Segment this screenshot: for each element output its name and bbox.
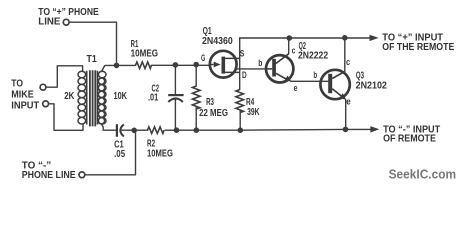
wire: Q3 collector from top rail	[344, 38, 346, 72]
junction node: Q3 collector at top rail	[342, 35, 348, 41]
junction node: R4 bottom	[238, 127, 244, 133]
svg-text:.05: .05	[114, 149, 125, 160]
svg-text:SeekIC.com: SeekIC.com	[389, 167, 457, 182]
wire: transformer secondary top stub	[102, 66, 105, 72]
svg-text:b: b	[258, 58, 262, 69]
svg-text:b: b	[313, 70, 317, 81]
wire: transformer secondary bottom stub to C1	[102, 124, 116, 130]
wire: mike input top lead to transformer primary top	[46, 66, 83, 87]
wire: Q3 emitter down to bottom rail	[345, 100, 347, 130]
terminal: phone + line	[63, 19, 69, 25]
junction node: R3 top	[193, 62, 199, 68]
junction node: C2 top	[173, 62, 179, 68]
transistor Q3 2N2102	[320, 70, 349, 100]
svg-text:R3: R3	[206, 97, 214, 108]
junction node: C1 / phone minus	[131, 128, 137, 134]
svg-text:22 MEG: 22 MEG	[199, 108, 228, 119]
wire: Q2 collector to top rail	[288, 38, 290, 54]
svg-text:G: G	[201, 53, 205, 64]
svg-text:10MEG: 10MEG	[147, 148, 173, 159]
transistor Q1 2N4360 (JFET)	[209, 51, 240, 78]
wire: bottom rail from C1 to output arrow	[121, 128, 370, 131]
junction node: Q3 emitter at bottom rail	[343, 127, 349, 133]
svg-text:2N2222: 2N2222	[298, 51, 328, 62]
svg-text:c: c	[292, 46, 296, 57]
svg-text:2K: 2K	[64, 91, 75, 102]
svg-text:e: e	[346, 97, 351, 108]
resistor R4 39K	[236, 90, 244, 113]
svg-text:OF REMOTE: OF REMOTE	[383, 134, 436, 145]
wire: Q1 drain lead down to R4	[239, 111, 241, 131]
capacitor C2 .01	[168, 95, 183, 102]
wire: Q1 source lead up to top rail	[239, 38, 241, 90]
terminal: mike input bottom	[43, 101, 49, 107]
svg-text:c: c	[346, 57, 350, 68]
junction node: R3 bottom	[194, 127, 200, 133]
wire: R3 branch vertical	[195, 65, 197, 130]
terminal: phone - line	[79, 172, 85, 178]
svg-text:D: D	[242, 70, 247, 81]
terminal: mike input top	[40, 84, 46, 90]
junction node: C2 bottom	[174, 127, 180, 133]
svg-text:2N2102: 2N2102	[356, 81, 388, 92]
arrow: to - input of remote	[370, 126, 379, 132]
svg-text:TO: TO	[11, 79, 23, 90]
capacitor C1 .05	[117, 124, 124, 137]
svg-text:PHONE LINE: PHONE LINE	[22, 170, 76, 181]
arrow: to + input of the remote	[370, 35, 379, 41]
junction node: Q2 collector at top rail	[287, 35, 293, 41]
svg-text:10K: 10K	[114, 91, 128, 102]
svg-text:LINE: LINE	[38, 17, 60, 28]
wire: Q2 emitter to Q3 base	[291, 80, 328, 82]
svg-text:.01: .01	[148, 93, 159, 104]
wire: bottom phone line lead	[85, 130, 136, 175]
svg-text:2N4360: 2N4360	[202, 36, 233, 47]
resistor R3 22MEG	[192, 86, 200, 109]
wire: mike input bottom lead to transformer primary bottom	[49, 104, 83, 131]
svg-text:10MEG: 10MEG	[131, 48, 159, 59]
wire: top-left phone line lead	[69, 22, 116, 65]
svg-text:INPUT: INPUT	[11, 100, 39, 111]
resistor R1 10MEG	[136, 62, 152, 69]
resistor R2 10MEG	[148, 127, 165, 134]
wire: Q1 drain to Q2 base	[236, 68, 266, 70]
svg-text:T1: T1	[87, 54, 98, 65]
wire: top rail from transformer to Q1 gate	[105, 64, 209, 67]
svg-text:S: S	[240, 48, 244, 59]
wire: C2 branch vertical	[174, 65, 176, 130]
wire: top rail to remote +	[240, 37, 370, 39]
transistor Q2 2N2222	[266, 54, 293, 83]
transformer T1	[78, 70, 106, 126]
svg-text:e: e	[294, 83, 298, 94]
svg-text:MIKE: MIKE	[11, 90, 34, 101]
svg-text:OF THE REMOTE: OF THE REMOTE	[382, 42, 454, 53]
junction node: top rail at phone drop	[114, 63, 120, 69]
svg-text:39K: 39K	[247, 107, 260, 118]
